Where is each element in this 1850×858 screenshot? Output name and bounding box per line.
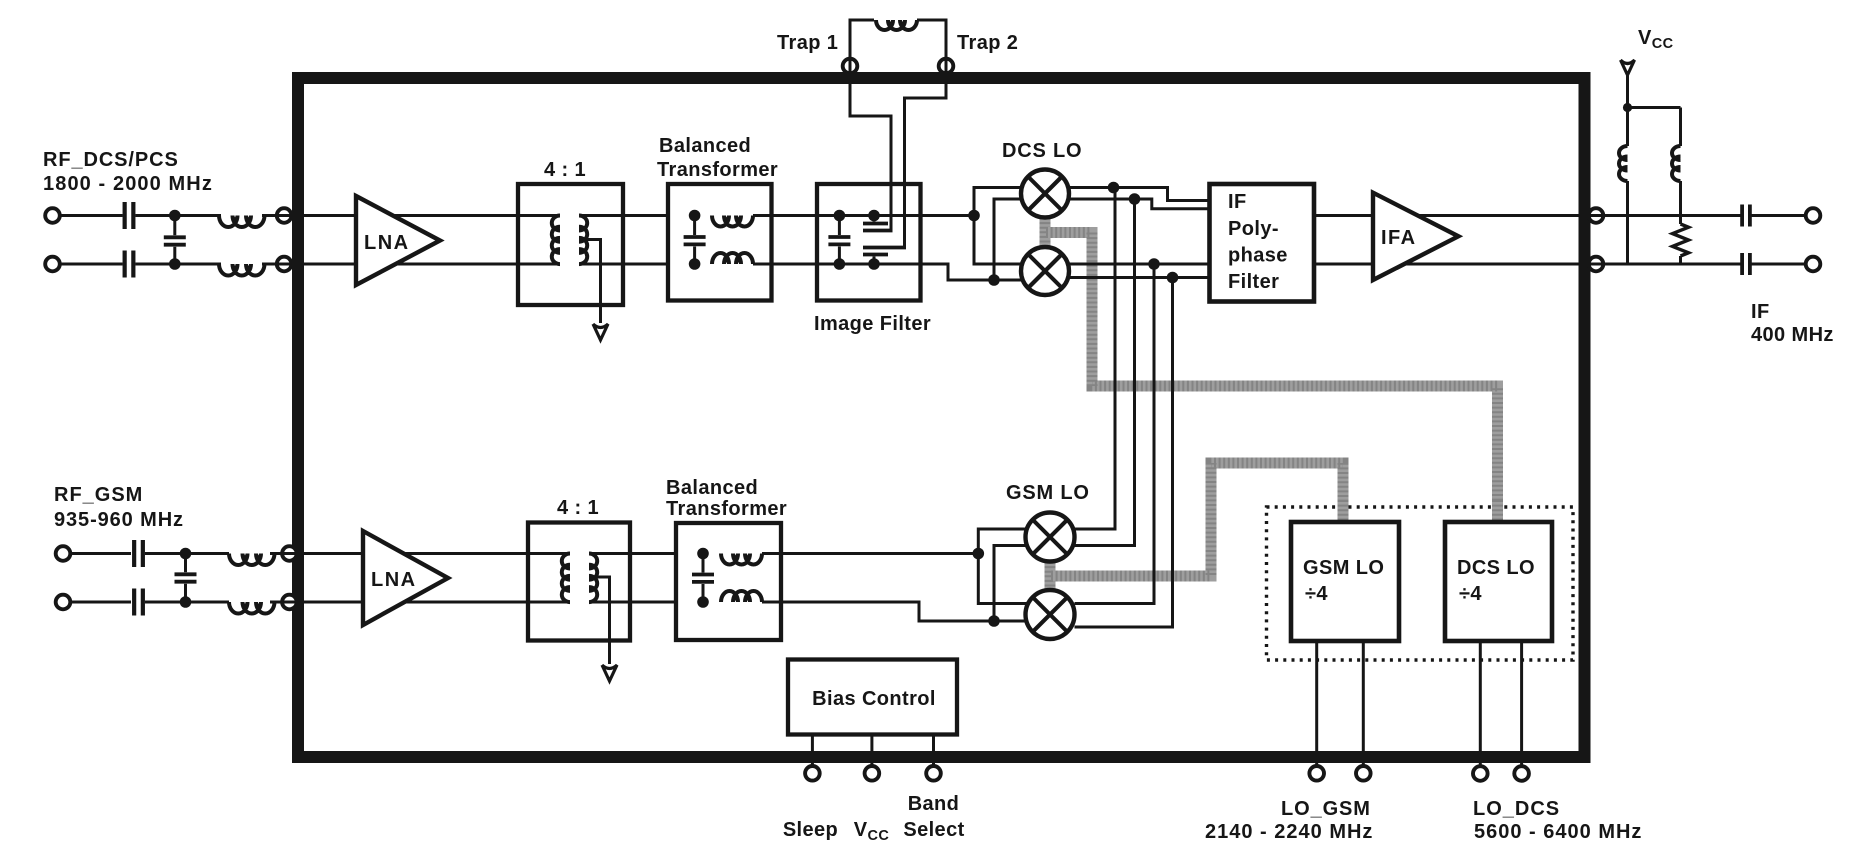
svg-text:400 MHz: 400 MHz — [1751, 324, 1834, 346]
node image filter top-left junction — [834, 210, 846, 222]
op-amp IFA — [1373, 193, 1458, 280]
wire T2 primary bottom lead — [528, 601, 570, 604]
wire shunt cap C6 upper lead — [184, 554, 187, 573]
wire LNA output to 4:1 transformer (bottom) — [380, 263, 518, 266]
mixer GSM LO I (top) — [1026, 513, 1075, 562]
IF output terminal top (chip pin) — [1589, 208, 1604, 223]
wire GSM balun shunt cap upper lead — [702, 554, 705, 573]
wire T2 secondary top lead — [589, 552, 676, 555]
resistor IF load — [1673, 224, 1689, 256]
node DCS mixer1 IF- junction — [1129, 193, 1141, 205]
Sleep terminal — [805, 766, 820, 781]
transformer T2 primary coil — [562, 554, 570, 603]
box DCS LO divider — [1445, 522, 1552, 641]
shaded LO net overlay at dotted border (GSM) — [1338, 500, 1349, 521]
wire DCS mixer1 IF+ output — [1067, 188, 1210, 201]
box Bias Control — [788, 660, 957, 735]
wire LO_DCS pin 2 — [1520, 641, 1523, 766]
op-amp LNA (DCS) — [356, 196, 440, 285]
wire L4 to pin — [270, 601, 282, 604]
wire IF choke right to resistor — [1679, 181, 1682, 224]
wire overlay through GSM+ pin — [283, 552, 297, 555]
node balun top junction — [689, 210, 701, 222]
svg-text:935-960 MHz: 935-960 MHz — [54, 509, 184, 531]
Vcc arrow symbol — [1621, 60, 1635, 75]
wire Vcc left branch upper — [1626, 108, 1629, 147]
wire DCS mixer2 IF+ output — [1067, 263, 1210, 266]
wire image filter shunt cap lower lead — [838, 247, 841, 265]
svg-text:Transformer: Transformer — [657, 159, 778, 181]
transformer T1 primary coil — [552, 216, 560, 265]
svg-text:LO_GSM: LO_GSM — [1281, 798, 1371, 820]
LO_DCS terminal 1 — [1473, 766, 1488, 781]
Band Select terminal — [926, 766, 941, 781]
wire shunt cap C6 lower lead — [184, 584, 187, 602]
inductor balun bottom (DCS) — [712, 253, 753, 264]
wire LNA output to 4:1 transformer (top) — [380, 214, 518, 217]
node C junction — [180, 548, 192, 560]
inductor L4 (GSM-) — [229, 602, 275, 614]
wire shunt cap C3 upper lead — [173, 216, 176, 236]
wire pin into chip to LNA (GSM+) — [296, 552, 364, 555]
box 4:1 transformer (DCS) — [518, 184, 623, 305]
inductor L2 (DCS-) — [219, 264, 265, 276]
capacitor shunt (DCS balun) — [684, 235, 706, 239]
node DCS mixer2 IF+ junction — [1148, 258, 1160, 270]
wire Vcc stub — [870, 735, 873, 767]
svg-text:DCS LO: DCS LO — [1002, 140, 1082, 162]
capacitor series C1 (DCS+) — [123, 202, 127, 229]
wire pin into chip to LNA (DCS+) — [291, 214, 357, 217]
capacitor shunt (image filter) — [828, 235, 850, 239]
op-amp LNA (GSM) — [363, 531, 448, 625]
svg-text:IF: IF — [1751, 301, 1770, 323]
wire RF_DCS- terminal to C2 — [57, 263, 123, 266]
DCS+ package pin terminal — [277, 208, 292, 223]
wire T2 primary top lead — [528, 552, 570, 555]
transformer T1 secondary coil — [579, 216, 587, 265]
node balun bottom junction — [689, 258, 701, 270]
wire LO_DCS pin 1 — [1479, 641, 1482, 766]
svg-text:5600 - 6400 MHz: 5600 - 6400 MHz — [1474, 821, 1642, 843]
svg-text:RF_DCS/PCS: RF_DCS/PCS — [43, 149, 179, 171]
shaded LO net from GSM mixers to GSM LO divider — [1051, 463, 1343, 576]
wire GSM LNA out top — [390, 552, 528, 555]
wire balun shunt cap lower lead — [693, 247, 696, 265]
wire trap cap A lead — [873, 216, 876, 222]
svg-text:IF: IF — [1228, 191, 1247, 213]
wire T1 center tap — [584, 240, 601, 324]
GSM- package pin terminal — [282, 595, 297, 610]
wire Band Select stub — [932, 735, 935, 767]
mixer DCS LO I (top) — [1021, 170, 1069, 218]
inductor L1 (DCS+) — [219, 216, 265, 228]
wire IF bus 2 (DCS m1- to GSM m1-) — [1075, 199, 1135, 546]
svg-text:Balanced: Balanced — [659, 135, 751, 157]
wire L3 to pin — [270, 552, 282, 555]
wire pin into chip to LNA (GSM-) — [296, 601, 364, 604]
node trap cap A junction — [868, 210, 880, 222]
box 4:1 transformer (GSM) — [528, 523, 630, 641]
shaded LO net between DCS mixers — [1040, 218, 1051, 248]
wire RF_GSM+ terminal to C4 — [68, 552, 131, 555]
wire IF output top — [1314, 214, 1742, 217]
wire Sleep stub — [811, 735, 814, 767]
wire trap cap B lead — [873, 257, 876, 265]
svg-text:Filter: Filter — [1228, 271, 1279, 293]
wire RF_GSM- terminal to C5 — [68, 601, 131, 604]
wire IF bus 4 (DCS m2- to GSM m2-) — [1075, 278, 1173, 628]
LO_GSM terminal 1 — [1309, 766, 1324, 781]
wire balun shunt cap upper lead — [693, 216, 696, 236]
wire IF bus 1 (DCS m1+ to GSM m1+) — [1075, 188, 1116, 530]
ground symbol (T2 tap) — [602, 665, 617, 681]
inductor L3 (GSM+) — [229, 554, 275, 566]
RF_GSM+ input terminal — [56, 546, 71, 561]
svg-text:4 : 1: 4 : 1 — [544, 159, 586, 181]
RF_DCS+ input terminal — [45, 208, 60, 223]
wire balun top out to image filter — [753, 214, 974, 217]
wire C2 to node B — [136, 263, 222, 266]
wire overlay through Trap 1 terminal — [849, 60, 852, 73]
wire DCS mixer bracket 1 — [974, 188, 1023, 265]
box GSM LO divider — [1291, 522, 1399, 641]
svg-text:LNA: LNA — [371, 569, 417, 591]
wire T1 secondary top lead — [579, 214, 668, 217]
dotted synthesizer block — [1267, 507, 1574, 660]
wire LO_GSM pin 1 — [1315, 641, 1318, 766]
wire overlay through GSM- pin — [283, 601, 297, 604]
svg-text:LNA: LNA — [364, 232, 410, 254]
mixer GSM LO Q (bottom) — [1026, 590, 1075, 639]
wire DCS mixer2 IF- output — [1067, 276, 1210, 279]
IF- output terminal — [1806, 257, 1821, 272]
wire overlay through IF- border pin — [1589, 263, 1604, 266]
wire trap loop — [850, 20, 874, 59]
mixer DCS LO Q (bottom) — [1021, 247, 1069, 295]
wire L2 to pin — [262, 263, 277, 266]
wire T1 primary bottom lead — [518, 263, 560, 266]
wire pin into chip to LNA (DCS-) — [291, 263, 357, 266]
svg-text:RF_GSM: RF_GSM — [54, 484, 143, 506]
capacitor series IF+ output — [1740, 205, 1744, 227]
capacitor trap A — [863, 222, 888, 226]
wire C4 to node C — [145, 552, 229, 555]
inductor balun top (DCS) — [712, 216, 753, 227]
box IF Polyphase Filter — [1210, 184, 1315, 302]
svg-text:GSM LO: GSM LO — [1006, 482, 1090, 504]
node GSM balun top junction — [697, 548, 709, 560]
svg-text:phase: phase — [1228, 245, 1288, 267]
svg-text:DCS LO: DCS LO — [1457, 557, 1535, 579]
wire T1 secondary bottom lead — [579, 263, 668, 266]
wire DCS mixer1 IF- output — [1067, 199, 1210, 209]
svg-text:4 : 1: 4 : 1 — [557, 497, 599, 519]
node DCS mixer1 IF+ junction — [1108, 182, 1120, 194]
inductor trap (external) — [876, 20, 917, 30]
capacitor series C2 (DCS-) — [123, 251, 127, 278]
wire image filter bottom to DCS mixer2 — [921, 264, 1025, 280]
Vcc terminal — [865, 766, 880, 781]
wire trap1 into chip to image filter — [850, 73, 891, 229]
svg-text:GSM LO: GSM LO — [1303, 557, 1384, 579]
wire trap2 into chip to image filter — [905, 73, 947, 249]
wire T2 center tap — [594, 577, 610, 664]
svg-text:Image Filter: Image Filter — [814, 313, 931, 335]
capacitor trap B — [863, 253, 888, 257]
svg-text:1800 - 2000 MHz: 1800 - 2000 MHz — [43, 173, 213, 195]
shaded LO net from DCS mixers to DCS LO divider — [1046, 233, 1498, 521]
wire overlay through Trap 2 terminal — [945, 60, 948, 73]
Trap 2 terminal — [939, 59, 954, 74]
wire RF_DCS+ terminal to C1 — [57, 214, 123, 217]
wire GSM LNA out bottom — [390, 601, 528, 604]
wire Vcc to right branch — [1628, 106, 1681, 109]
svg-text:Bias Control: Bias Control — [812, 688, 936, 710]
node trap cap B junction — [868, 258, 880, 270]
wire GSM balun bottom out to mixers — [762, 602, 1026, 621]
inductor IF choke left — [1619, 146, 1627, 181]
svg-text:Transformer: Transformer — [666, 498, 787, 520]
node GSM RF- split junction — [988, 615, 1000, 627]
node D junction — [180, 596, 192, 608]
node B junction — [169, 258, 181, 270]
svg-text:÷4: ÷4 — [1459, 583, 1482, 605]
capacitor shunt (GSM balun) — [692, 573, 714, 577]
wire overlay through IF+ border pin — [1589, 214, 1604, 217]
svg-text:Balanced: Balanced — [666, 477, 758, 499]
box Image Filter — [817, 184, 921, 301]
LO_GSM terminal 2 — [1356, 766, 1371, 781]
wire balun bottom out to image filter — [753, 263, 921, 266]
GSM+ package pin terminal — [282, 546, 297, 561]
svg-text:IFA: IFA — [1381, 227, 1417, 249]
node Vcc junction — [1623, 103, 1632, 112]
node A junction — [169, 210, 181, 222]
LO_DCS terminal 2 — [1514, 766, 1529, 781]
wire C1 to node A — [136, 214, 222, 217]
inductor GSM balun top — [721, 554, 762, 565]
node GSM RF+ split junction — [973, 548, 985, 560]
svg-text:Sleep: Sleep — [783, 819, 838, 841]
wire overlay through DCS- pin — [278, 263, 293, 266]
svg-text:LO_DCS: LO_DCS — [1473, 798, 1560, 820]
wire overlay through DCS+ pin — [278, 214, 293, 217]
IF+ output terminal — [1806, 208, 1821, 223]
wire IF output bottom — [1314, 263, 1742, 266]
transformer T2 secondary coil — [589, 554, 597, 603]
wire L1 to pin — [262, 214, 277, 217]
wire Vcc right branch upper — [1679, 108, 1682, 147]
node DCS RF- split junction — [988, 274, 1000, 286]
wire IF bus 3 (DCS m2+ to GSM m2+) — [1075, 264, 1155, 604]
capacitor series C4 (GSM+) — [132, 540, 136, 567]
svg-text:÷4: ÷4 — [1305, 583, 1328, 605]
capacitor series C5 (GSM-) — [132, 589, 136, 616]
DCS- package pin terminal — [277, 257, 292, 272]
wire Vcc feed — [1626, 75, 1629, 108]
Trap 1 terminal — [843, 59, 858, 74]
ground symbol (T1 tap) — [593, 324, 608, 340]
wire image filter shunt cap upper lead — [838, 216, 841, 236]
svg-text:Poly-: Poly- — [1228, 218, 1279, 240]
shaded LO net between GSM mixers — [1045, 562, 1056, 591]
box Balanced Transformer (DCS) — [668, 184, 772, 301]
inductor GSM balun bottom — [721, 591, 762, 602]
node DCS RF+ split junction — [968, 210, 980, 222]
RF_GSM- input terminal — [56, 595, 71, 610]
chip boundary (IC outline) — [298, 78, 1585, 757]
IF output terminal bottom (chip pin) — [1589, 257, 1604, 272]
wire GSM balun shunt cap lower lead — [702, 584, 705, 602]
wire LO_GSM pin 2 — [1362, 641, 1365, 766]
svg-text:Band: Band — [908, 793, 960, 815]
wire GSM mixer bracket 2 — [994, 546, 1028, 622]
wire resistor to IF- line — [1679, 256, 1682, 264]
shaded LO net overlay at dotted border (DCS) — [1492, 500, 1503, 521]
inductor IF choke right — [1672, 146, 1681, 181]
wire T2 secondary bottom lead — [589, 601, 676, 604]
wire DCS mixer bracket 2 — [994, 199, 1023, 280]
wire C5 to node D — [145, 601, 229, 604]
capacitor series IF- output — [1740, 253, 1744, 275]
svg-text:Trap 1: Trap 1 — [777, 32, 838, 54]
wire IF choke left to IF- line — [1626, 181, 1629, 264]
capacitor shunt C6 (GSM input) — [175, 572, 197, 576]
svg-text:2140 - 2240 MHz: 2140 - 2240 MHz — [1205, 821, 1373, 843]
capacitor shunt C3 (DCS input) — [164, 235, 186, 239]
wire trap loop right — [917, 20, 946, 59]
wire GSM mixer bracket 1 — [978, 529, 1028, 604]
svg-text:Trap 2: Trap 2 — [957, 32, 1018, 54]
wire GSM balun top out to mixers — [762, 552, 978, 555]
RF_DCS- input terminal — [45, 257, 60, 272]
wire T1 primary top lead — [518, 214, 560, 217]
node GSM balun bottom junction — [697, 596, 709, 608]
svg-text:Select: Select — [903, 819, 964, 841]
node DCS mixer2 IF- junction — [1167, 272, 1179, 284]
wire shunt cap C3 lower lead — [173, 247, 176, 264]
box Balanced Transformer (GSM) — [676, 523, 781, 640]
node image filter bottom-left junction — [834, 258, 846, 270]
